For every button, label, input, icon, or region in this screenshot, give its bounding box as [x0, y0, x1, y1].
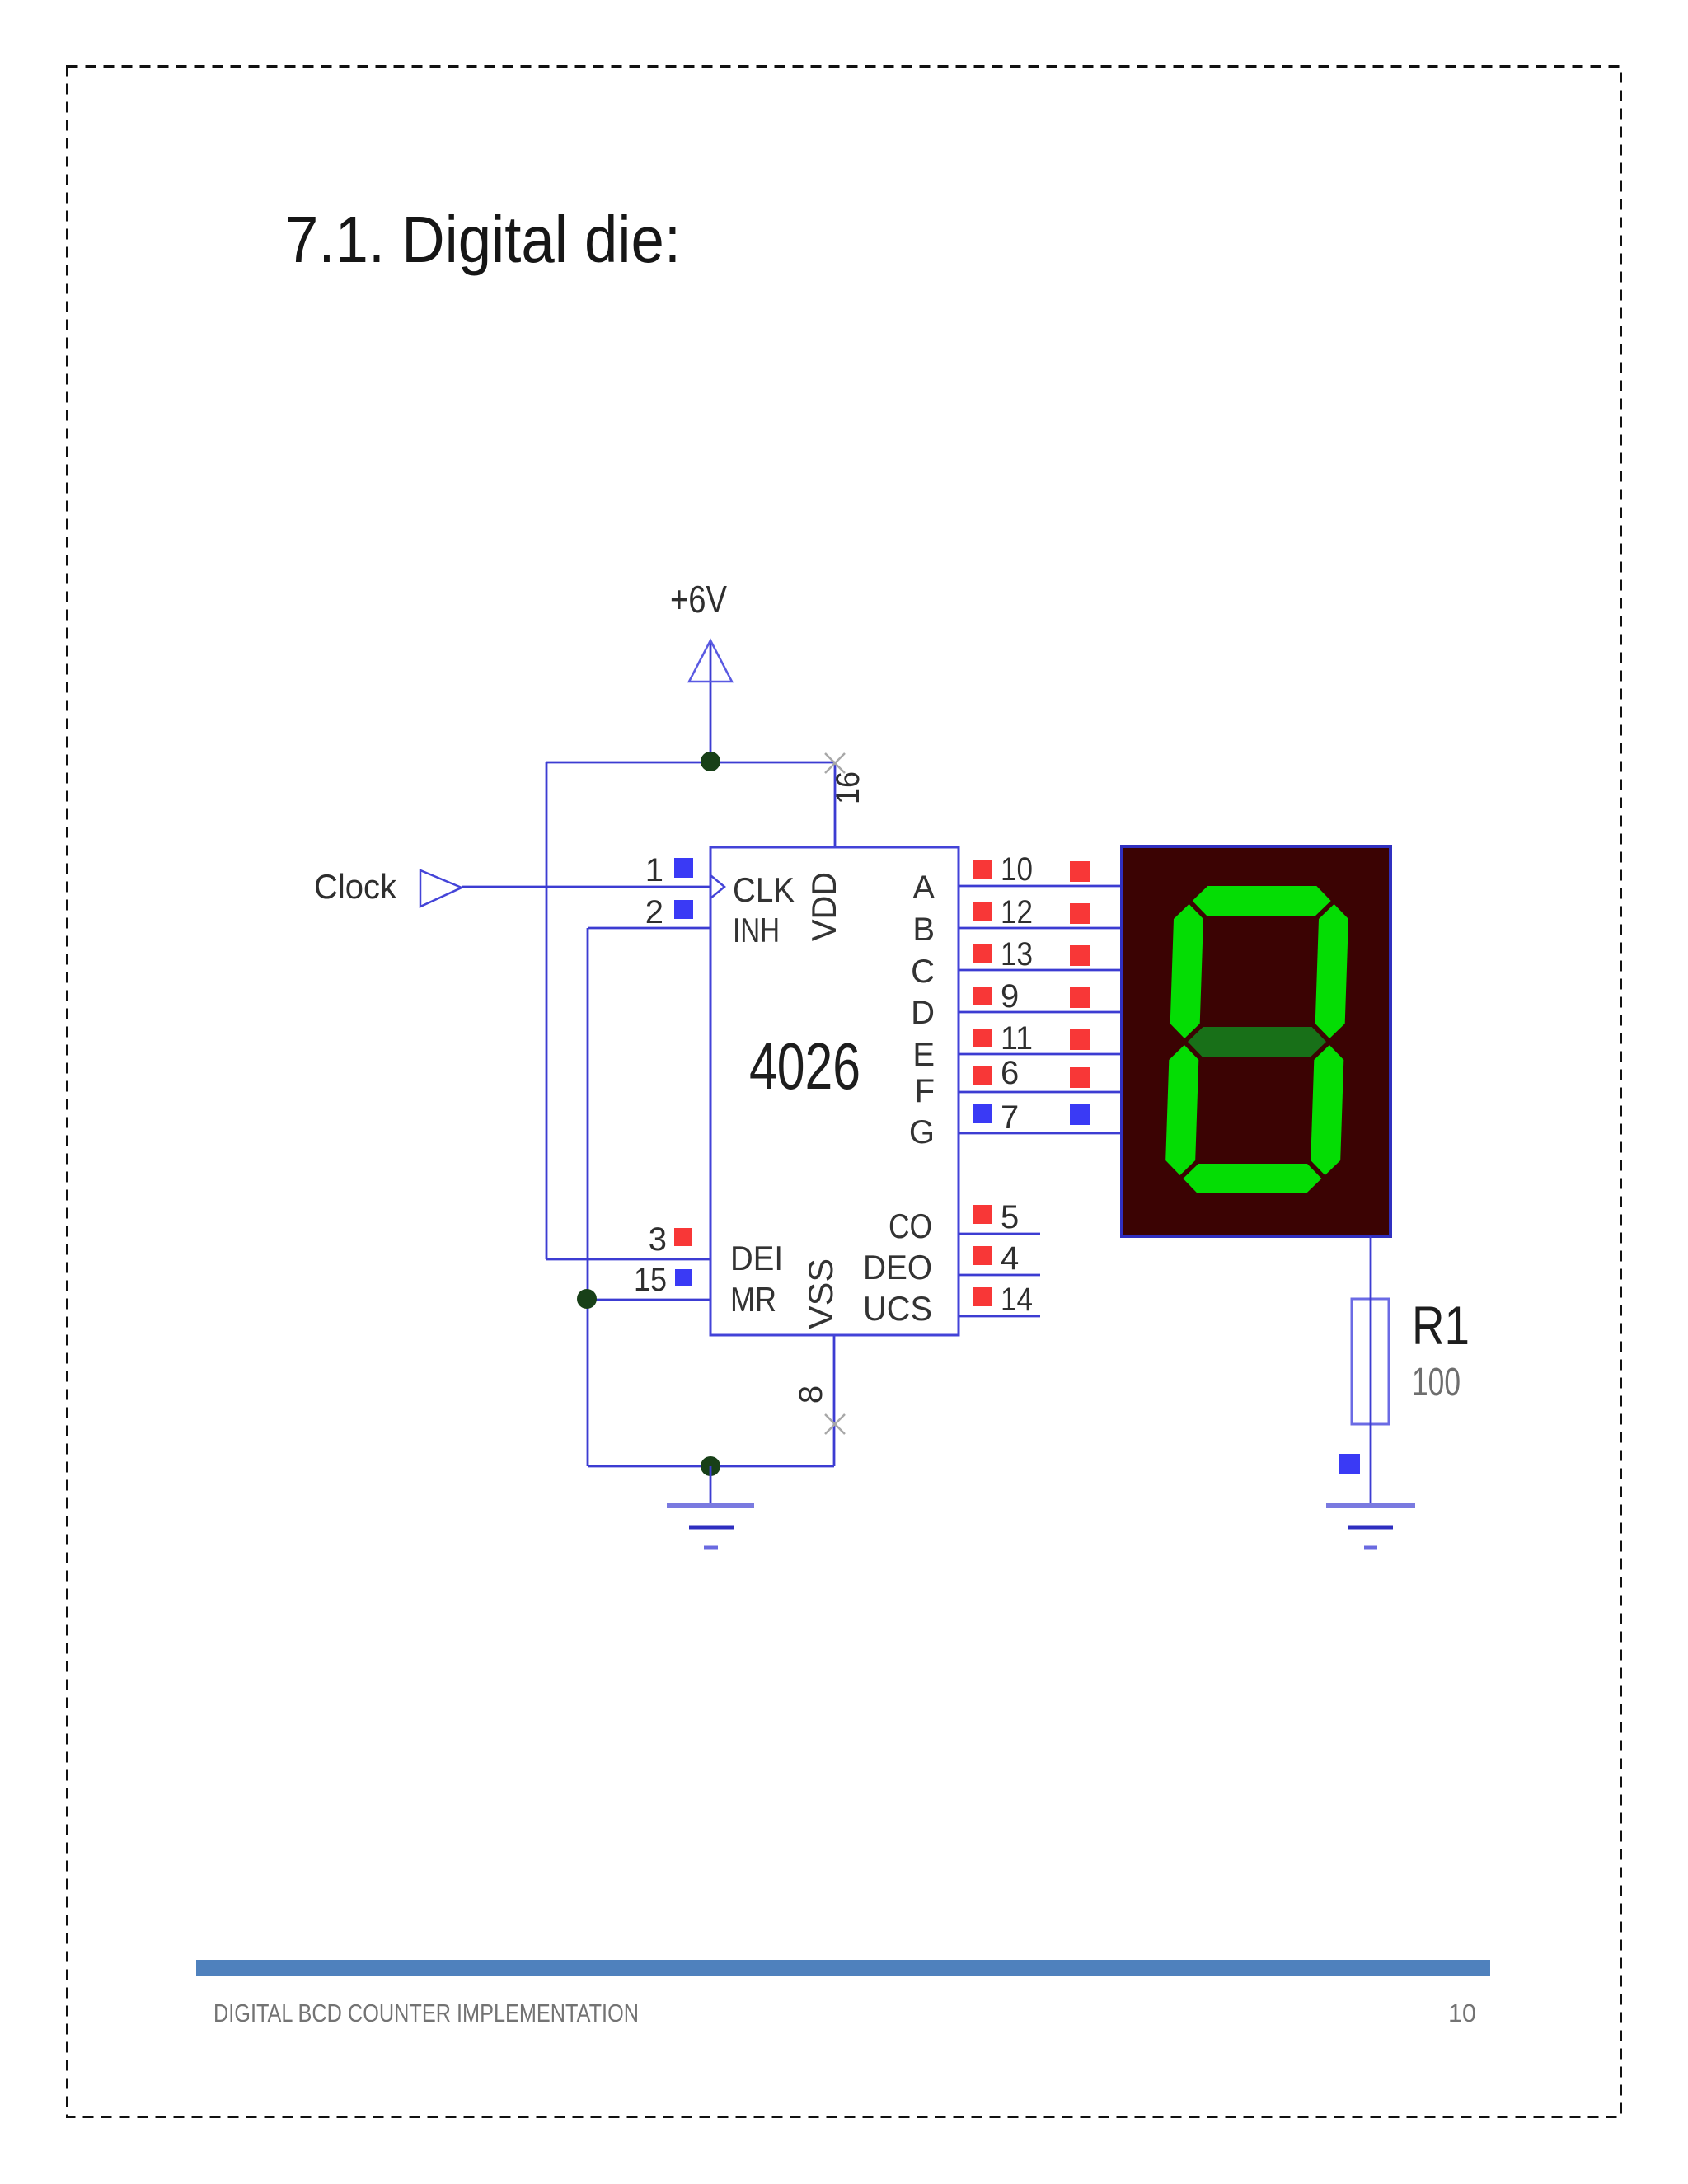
svg-text:13: 13: [1001, 936, 1033, 972]
clock source buffer triangle: [420, 870, 462, 907]
svg-text:+6V: +6V: [670, 578, 727, 621]
svg-text:DEO: DEO: [863, 1248, 932, 1286]
power symbol +6V triangle: [689, 640, 732, 682]
state square pin 3 (red): [674, 1228, 692, 1246]
wire: bottom ground rail: [588, 1465, 834, 1468]
svg-text:D: D: [911, 995, 935, 1031]
junction dot at VDD rail: [701, 752, 720, 771]
svg-text:12: 12: [1001, 894, 1033, 930]
segment A (lit): [1193, 886, 1331, 916]
no-connect X marker at pin 16: [825, 753, 845, 773]
svg-text:8: 8: [793, 1385, 829, 1404]
wire: MR horizontal: [588, 1299, 710, 1301]
segment C (lit): [1311, 1045, 1343, 1175]
IC U1 4026 body: [710, 847, 959, 1335]
wire: segment G net: [959, 1132, 1122, 1135]
state square pin 15 (blue): [675, 1269, 692, 1286]
wire: VDD rail horizontal: [546, 762, 835, 764]
wire: INH horizontal: [588, 927, 710, 930]
junction dot at MR: [577, 1289, 597, 1309]
segment F (lit): [1170, 904, 1203, 1038]
wire: display cathode through R1 to ground: [1370, 1236, 1372, 1506]
7-segment display DS1 body: [1122, 846, 1390, 1236]
svg-text:INH: INH: [733, 911, 780, 949]
wire: left vertical (VDD rail down to DEI): [546, 762, 548, 1259]
state square pin 1 (blue): [674, 858, 693, 878]
wire: clock to CLK pin: [462, 886, 710, 888]
svg-text:2: 2: [645, 894, 663, 930]
svg-text:10: 10: [1001, 851, 1033, 888]
svg-text:11: 11: [1001, 1020, 1033, 1057]
segment D (lit): [1183, 1164, 1321, 1193]
svg-text:15: 15: [634, 1262, 667, 1298]
clock input marker on CLK pin: [710, 875, 724, 898]
svg-text:4: 4: [1001, 1240, 1019, 1277]
wire: segment B net: [959, 927, 1122, 930]
ground symbol (right): [1326, 1506, 1415, 1548]
svg-text:100: 100: [1412, 1361, 1461, 1404]
svg-text:E: E: [912, 1037, 935, 1073]
svg-text:C: C: [911, 954, 935, 990]
segment B (lit): [1315, 904, 1348, 1038]
svg-text:CLK: CLK: [733, 870, 795, 909]
state squares right column A..G: [1070, 861, 1090, 1125]
svg-text:DEI: DEI: [730, 1239, 783, 1277]
svg-text:F: F: [915, 1073, 935, 1109]
wire: ground stub: [710, 1466, 712, 1506]
wire: CO stub: [959, 1233, 1040, 1235]
svg-text:A: A: [912, 869, 935, 906]
state square at R1 bottom (blue): [1339, 1454, 1360, 1474]
svg-text:14: 14: [1001, 1282, 1033, 1318]
svg-text:3: 3: [649, 1221, 667, 1258]
state squares left column A..G: [973, 860, 992, 1306]
svg-text:6: 6: [1001, 1055, 1019, 1091]
segment E (lit): [1165, 1045, 1198, 1175]
svg-text:DIGITAL BCD COUNTER IMPLEMENTA: DIGITAL BCD COUNTER IMPLEMENTATION: [213, 1999, 639, 2027]
wire: segment E net: [959, 1053, 1122, 1056]
svg-text:VDD: VDD: [804, 872, 843, 941]
svg-text:UCS: UCS: [863, 1289, 932, 1328]
svg-text:9: 9: [1001, 978, 1019, 1015]
ground symbol (left): [667, 1506, 754, 1548]
wire: segment D net: [959, 1011, 1122, 1014]
segment G (off, dim): [1188, 1027, 1326, 1057]
svg-text:4026: 4026: [749, 1029, 860, 1103]
state square pin 2 (blue): [674, 900, 693, 919]
svg-text:1: 1: [645, 852, 663, 888]
wire: DEI horizontal: [546, 1258, 710, 1261]
wire: +6V stem: [710, 642, 712, 762]
svg-text:MR: MR: [730, 1280, 776, 1319]
wire: DEO stub: [959, 1274, 1040, 1277]
resistor R1 body: [1352, 1299, 1389, 1424]
svg-text:G: G: [909, 1114, 935, 1151]
wire: segment F net: [959, 1091, 1122, 1094]
svg-text:10: 10: [1448, 1999, 1476, 2027]
svg-text:16: 16: [830, 771, 866, 804]
svg-text:R1: R1: [1412, 1295, 1470, 1356]
wire: segment C net: [959, 969, 1122, 972]
junction dot at ground rail: [701, 1456, 720, 1476]
svg-text:B: B: [912, 912, 935, 948]
wire: UCS stub: [959, 1315, 1040, 1318]
svg-text:VSS: VSS: [801, 1258, 840, 1329]
wire: pin 16 drop to IC top: [834, 762, 837, 847]
wire: segment A net: [959, 885, 1122, 888]
no-connect X marker at pin 8: [825, 1414, 845, 1434]
svg-text:Clock: Clock: [314, 867, 397, 906]
svg-text:CO: CO: [889, 1207, 932, 1245]
svg-text:5: 5: [1001, 1199, 1019, 1235]
svg-text:7: 7: [1001, 1099, 1019, 1136]
svg-text:7.1. Digital die:: 7.1. Digital die:: [285, 203, 681, 276]
wire: middle vertical (INH to bottom rail): [587, 928, 589, 1466]
footer accent bar: [196, 1960, 1490, 1976]
wire: VSS pin 8 drop: [833, 1335, 836, 1466]
